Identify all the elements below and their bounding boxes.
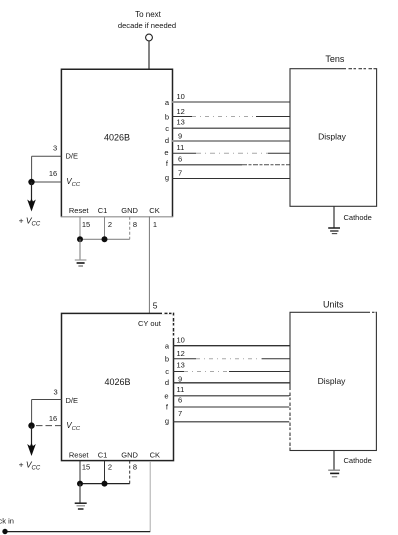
wire: segment e tens (172, 152, 290, 154)
svg-text:15: 15 (82, 463, 90, 472)
junction: U1 C1-gnd (102, 236, 108, 242)
wire: U1 pin 16 VCC (32, 181, 62, 183)
ground (DS2 cathode) (328, 470, 340, 477)
ground (U1) (75, 260, 87, 266)
svg-text:c: c (165, 367, 169, 376)
wire: DS1 cathode drop (333, 206, 335, 227)
wire: U2 reset/C1/GND bus (80, 483, 130, 485)
wire: U2 GND pin stub (dashed) (129, 461, 131, 484)
node: To next decade terminal (118, 10, 176, 41)
svg-text:b: b (165, 112, 169, 121)
wire: segment b units (173, 358, 291, 360)
svg-text:e: e (164, 391, 168, 400)
svg-text:3: 3 (53, 143, 57, 152)
ground (DS1 cathode) (328, 228, 340, 234)
svg-text:e: e (164, 148, 168, 157)
svg-text:7: 7 (178, 168, 182, 177)
wire: VCC node down to supply arrow (31, 182, 33, 201)
wire: U1 reset/C1/GND bus (80, 238, 130, 240)
wire: DS2 cathode drop (333, 451, 335, 470)
wire: segment g units (173, 421, 291, 423)
svg-text:10: 10 (177, 336, 185, 345)
junction: U2 C1-gnd (102, 481, 108, 487)
svg-text:CK: CK (150, 451, 160, 460)
junction: U1 reset-gnd (77, 236, 83, 242)
wire: segment c tens (172, 127, 290, 129)
wire: U2 Reset pin stub (79, 461, 81, 484)
wire: segment b tens (172, 116, 290, 118)
svg-text:11: 11 (177, 143, 185, 152)
wire: segment a tens (172, 101, 290, 103)
wire: U2 VCC node down (31, 426, 33, 446)
wire: U2 C1 pin stub (104, 461, 106, 484)
svg-text:6: 6 (178, 396, 182, 405)
junction: clock in node (2, 529, 7, 534)
svg-text:2: 2 (108, 220, 112, 229)
svg-text:Reset: Reset (69, 206, 90, 215)
svg-text:decade if needed: decade if needed (118, 21, 176, 30)
svg-text:8: 8 (133, 463, 137, 472)
junction: U2 VCC node (28, 422, 34, 428)
svg-text:5: 5 (153, 301, 158, 311)
svg-text:1: 1 (153, 220, 157, 229)
wire: U2 pin 3 D/E (32, 399, 62, 401)
wire: segment c units (173, 371, 291, 373)
svg-text:Cathode: Cathode (344, 456, 372, 465)
wire: U2 CY out to U1 CK (148, 216, 150, 313)
svg-text:C1: C1 (98, 206, 108, 215)
svg-text:CK: CK (149, 206, 159, 215)
IC U1 4026B (tens counter) body (61, 69, 172, 217)
junction: U1 VCC node (28, 179, 34, 185)
power symbol: +VCC arrow (units) (27, 443, 36, 456)
svg-text:11: 11 (177, 385, 185, 394)
svg-text:ck in: ck in (0, 517, 14, 526)
svg-text:13: 13 (177, 361, 185, 370)
wire: terminal to U1 top (carry out of tens) (148, 41, 150, 69)
wire: U1 GND pin stub (dashed) (129, 217, 131, 240)
wire: segment a units (173, 345, 291, 347)
wire: segment f tens (172, 164, 290, 166)
wire: segment d units (173, 382, 291, 384)
wire: U2 D/E to VCC tie (31, 400, 33, 426)
svg-text:Display: Display (318, 376, 347, 386)
svg-text:Reset: Reset (69, 451, 90, 460)
svg-text:12: 12 (177, 107, 185, 116)
wire: U1 C1 pin stub (104, 217, 106, 240)
svg-text:3: 3 (54, 387, 58, 396)
svg-text:4026B: 4026B (104, 377, 130, 387)
wire: segment d tens (172, 140, 290, 142)
junction: U2 reset-gnd (77, 481, 83, 487)
svg-text:13: 13 (177, 118, 185, 127)
wire: clock input line (5, 531, 151, 533)
svg-text:GND: GND (121, 451, 138, 460)
svg-text:9: 9 (178, 131, 182, 140)
svg-text:15: 15 (82, 220, 90, 229)
svg-text:6: 6 (178, 154, 182, 163)
svg-text:16: 16 (49, 169, 57, 178)
svg-text:16: 16 (49, 414, 57, 423)
wire: U1 Reset pin stub (79, 217, 81, 240)
wire: U2 gnd drop (79, 484, 81, 503)
svg-text:CY out: CY out (138, 319, 162, 328)
svg-text:C1: C1 (98, 451, 108, 460)
wire: U1 pin 3 D/E (32, 155, 62, 157)
svg-text:D/E: D/E (66, 396, 79, 405)
svg-text:12: 12 (177, 349, 185, 358)
svg-text:c: c (165, 124, 169, 133)
svg-text:To next: To next (135, 10, 162, 19)
display DS1 (Tens) body (290, 69, 377, 207)
wire: U2 pin 16 VCC (32, 425, 62, 427)
wire: segment g tens (172, 178, 290, 180)
svg-text:2: 2 (108, 463, 112, 472)
svg-text:4026B: 4026B (104, 133, 130, 143)
display DS2 (Units) body (290, 312, 376, 450)
svg-text:Display: Display (318, 132, 347, 142)
svg-text:Tens: Tens (325, 54, 345, 64)
svg-text:b: b (165, 354, 169, 363)
wire: U2 CK to clock line (149, 461, 151, 532)
svg-text:Cathode: Cathode (344, 213, 372, 222)
power symbol: +VCC arrow (tens) (27, 199, 36, 212)
wire: U1 gnd drop (79, 239, 81, 259)
svg-text:d: d (165, 136, 169, 145)
svg-text:g: g (165, 416, 169, 425)
svg-text:D/E: D/E (66, 151, 79, 160)
wire: D/E to VCC tie (vertical) (31, 156, 33, 182)
svg-text:7: 7 (178, 409, 182, 418)
ground (U2) (75, 503, 87, 509)
svg-text:d: d (165, 378, 169, 387)
IC U2 4026B (units counter) body (62, 313, 174, 460)
svg-text:GND: GND (121, 206, 138, 215)
svg-text:Units: Units (323, 299, 344, 309)
svg-text:8: 8 (133, 220, 137, 229)
svg-text:10: 10 (177, 92, 185, 101)
wire: segment f units (173, 406, 291, 408)
wire: segment e units (173, 395, 291, 397)
svg-text:g: g (165, 173, 169, 182)
